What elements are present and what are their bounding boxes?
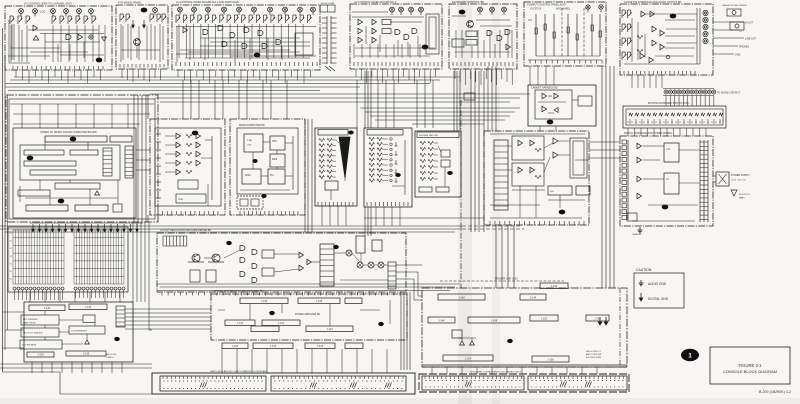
svg-text:LH CONTROLLERS TO LH PANEL ASS: LH CONTROLLERS TO LH PANEL ASSY: [24, 2, 72, 6]
long vertical bus right of A5: [470, 71, 472, 232]
panel board A3 (wide control panel) outline: [172, 5, 320, 70]
circled note 24 (B17): [507, 339, 513, 343]
wires board A17: [249, 304, 251, 320]
slide pot R4 (panel A6): [567, 14, 569, 56]
vertical buffer strip (computer): [103, 148, 112, 176]
aux box (board A8): [578, 96, 592, 106]
inner amplifier box (board A8): [535, 90, 572, 119]
connector bar J-122: [253, 343, 293, 349]
pin drop comb under board A3: [177, 70, 179, 77]
bottom rail (B17): [422, 364, 627, 366]
svg-text:J-112: J-112: [278, 321, 285, 325]
circled note 19 (board A16): [226, 241, 232, 245]
svg-text:MOD WHEEL: MOD WHEEL: [556, 9, 571, 11]
sheet number oval 1: [681, 349, 699, 361]
svg-text:XTAL: XTAL: [247, 139, 253, 142]
op-amp row 2 (board A10): [176, 142, 181, 147]
NAND gate U3 (board A1): [66, 35, 71, 40]
right horizontal bus y218: [364, 217, 484, 219]
output jack circle J20 (board A7): [703, 10, 708, 15]
jack contacts right group (board A2): [149, 14, 151, 22]
bottom pin row (board A4): [353, 62, 355, 66]
routing verticals board A3: [178, 24, 180, 58]
wires board A10: [165, 135, 176, 137]
mixer amp U52 (board A15): [553, 138, 558, 144]
small parts (board A7): [637, 35, 643, 38]
R-2R ladder rows (board A12): [319, 138, 325, 141]
svg-text:J-130: J-130: [44, 306, 51, 310]
RAM box U41 (board A11): [270, 154, 285, 167]
top horizontal bus line 4: [5, 86, 360, 88]
clock box (board A11): [244, 134, 263, 152]
tempo pot boxes: [240, 199, 248, 206]
page fold shading: [458, 0, 472, 404]
harness bar J-148: [468, 317, 520, 323]
keyboard matrix strip left outer: [152, 373, 415, 394]
contact strip segment 1 pin comb: [424, 376, 426, 379]
wires board A8: [548, 95, 552, 97]
output stub PHONES: [713, 45, 738, 47]
contact strip segment 2: [528, 376, 627, 390]
slide pot R5 (panel A6): [576, 14, 578, 56]
noise board drops: [539, 126, 541, 131]
svg-text:ORDER OF MICRO SOUND COMPUTER: ORDER OF MICRO SOUND COMPUTER BOARD: [40, 131, 97, 134]
svg-text:88 NOTE KEYBOARD SWITCH ASSY: 88 NOTE KEYBOARD SWITCH ASSY: [648, 102, 689, 105]
circled note 7 (board A7): [670, 14, 677, 19]
bottom pin row (board A3): [175, 62, 177, 66]
connector bars row below board A17: [222, 343, 248, 349]
wires board A5: [455, 51, 510, 53]
svg-text:JOYSTICK: JOYSTICK: [530, 9, 542, 11]
op-amp row 5 (board A10): [176, 169, 181, 174]
A16 right output links: [396, 264, 422, 266]
digital ground symbol: [640, 293, 642, 298]
harness bar J-144: [520, 294, 546, 300]
bottom pin row (board A5): [452, 62, 454, 66]
power amp board A17 outline: [211, 294, 407, 340]
right dash-dot edge (B17): [619, 288, 621, 365]
svg-text:B-200 (1B290K) 3-2: B-200 (1B290K) 3-2: [759, 390, 791, 394]
vertical bus between CPU boards: [304, 119, 306, 232]
bar bottom 1 (board A18): [27, 352, 54, 357]
circled note 9 (board A9): [662, 205, 669, 210]
down arrows (board A2): [132, 20, 134, 25]
harness bar J-150: [530, 315, 558, 321]
op-amp row 3 (board A10): [176, 151, 181, 156]
svg-text:J-124: J-124: [317, 344, 324, 348]
regulator band bottom pin comb: [161, 293, 163, 296]
bar J-132 (board A18): [69, 304, 107, 310]
svg-text:J-142: J-142: [551, 284, 558, 288]
slide pot R7 (panel A6): [599, 14, 601, 56]
top horizontal bus line 1: [14, 76, 460, 78]
circled note 18 (board A15): [559, 210, 566, 215]
output stub LINE: [713, 37, 744, 39]
svg-text:AUDIO GND: AUDIO GND: [648, 282, 667, 286]
caution legend box: [634, 273, 684, 308]
transistor Q2 (board A5): [467, 21, 474, 28]
filter caps (board A16): [190, 270, 200, 282]
top horizontal bus line 3: [5, 83, 430, 85]
B17 drops to strip B: [431, 367, 433, 374]
nested corner routing board A1: [9, 20, 30, 63]
wires board A9: [643, 145, 664, 147]
svg-text:J-110: J-110: [237, 321, 244, 325]
address bus bar (computer): [45, 136, 107, 142]
routing verticals board A2: [122, 26, 124, 60]
aux box small (board A18): [83, 315, 95, 323]
output jack circle J24 (board A7): [703, 38, 708, 43]
balance modulator X2: [357, 262, 363, 268]
keyboard strip pin dots: [627, 121, 628, 122]
IO box U42 (board A11): [242, 169, 261, 184]
vertical bus lower mid to strips: [400, 292, 402, 370]
svg-text:PWR: PWR: [178, 199, 184, 201]
sheet left border wire 1: [2, 28, 4, 372]
speaker amp tri 2: [470, 341, 475, 345]
keyboard analog inner box: [155, 128, 221, 206]
vertical bus A13 to lower band: [364, 207, 366, 236]
svg-text:J-120: J-120: [232, 344, 239, 348]
power supply connector J40: [716, 172, 729, 186]
cassette deck connector symbol: [727, 9, 741, 16]
switch matrix grid left: [12, 230, 14, 284]
bottom pin row (board A2): [119, 64, 121, 68]
keyboard control board A5 outline: [449, 4, 517, 69]
slide pot R2 (panel A6): [544, 14, 546, 56]
buffer amp U5 (board A3): [183, 27, 188, 32]
svg-text:KEY RELEASE: KEY RELEASE: [22, 344, 37, 347]
matrix strip segment 1 pin comb: [162, 376, 164, 379]
wires board A7: [631, 18, 633, 62]
matrix strip slash group a: [200, 383, 202, 388]
svg-text:J-144: J-144: [530, 296, 537, 300]
buffer U31 (board A9): [637, 157, 642, 162]
logic gates cluster (board A16): [240, 246, 245, 251]
right bus strip (board A9): [699, 140, 701, 222]
computer to A10 links: [136, 149, 150, 151]
circled note 8 (board A8): [547, 120, 554, 125]
VCA box (board A16): [356, 236, 365, 253]
power wires to connector: [713, 175, 716, 177]
matrix strip segment 2 pin comb: [273, 376, 275, 379]
wires board A18: [44, 311, 46, 315]
diode CR2 (board A8): [554, 108, 558, 113]
hold caps column (board A13): [395, 142, 397, 146]
circled note 23 (board A18): [114, 337, 120, 341]
jack contacts row (board A3): [175, 15, 177, 23]
harness bar J-156: [532, 356, 569, 362]
line amps U24/U25 (board A7): [652, 40, 657, 45]
extra interior wires board A15: [490, 133, 585, 135]
long drop wires top row to mid blocks right group: [356, 80, 358, 128]
contact strip bottom dot row 1: [425, 386, 428, 389]
wires computer board: [44, 142, 46, 150]
circled note 16 (board A13): [395, 173, 401, 177]
svg-text:PITCH/MOD PANEL: PITCH/MOD PANEL: [118, 1, 142, 5]
svg-text:HI OUT: HI OUT: [745, 22, 754, 25]
header slash marks: [325, 66, 331, 71]
grid bottom lamp circles left: [13, 287, 16, 290]
matrix strip left segment 2: [271, 376, 406, 391]
harness bar J-140: [438, 294, 485, 300]
circled note 6 (board A5): [459, 10, 466, 15]
DAC board A12 outline: [315, 128, 357, 206]
heatsink hatch left (board A16): [162, 236, 164, 246]
gates U18-U20 (board A5): [487, 31, 492, 36]
amp U29 (board A8): [542, 106, 547, 111]
computer control panel A6 outline: [524, 2, 606, 66]
terminal bar T3 (board A17): [306, 326, 353, 332]
bottom pin row (board A7): [623, 71, 625, 75]
A15 to A9 horizontal links: [589, 141, 620, 143]
left border feeds into A18: [3, 311, 25, 313]
svg-text:MICROCOMPUTER BD: MICROCOMPUTER BD: [239, 124, 265, 127]
A6 pins drop to A15: [529, 66, 531, 85]
svg-text:+5 VOLT REGULATOR AND LAMP DRI: +5 VOLT REGULATOR AND LAMP DRIVER BD: [160, 229, 211, 232]
panel jacks row (board A3): [178, 7, 183, 12]
control bar (computer): [30, 170, 76, 175]
DAC register box: [325, 181, 338, 190]
diode CR1 (board A1): [102, 37, 107, 41]
svg-text:J-150: J-150: [541, 317, 548, 321]
board A13 label bar: [367, 130, 403, 136]
fan symbol: [731, 190, 737, 196]
harness bar J-152: [586, 315, 609, 321]
phones amp U26 (board A7): [640, 53, 645, 58]
top horizontal bus line 2: [10, 79, 440, 81]
circled note 20 (board A16): [333, 245, 339, 249]
CPU box U40 (board A11): [270, 136, 285, 150]
board A7 to keyboard connector drops: [631, 75, 633, 88]
computer enclosure second outline: [9, 99, 155, 219]
panel jack J7 (board A2): [153, 8, 158, 13]
svg-text:CABINET HARNESS BD: CABINET HARNESS BD: [531, 87, 558, 90]
amp pair row 2 (board A4): [358, 28, 363, 33]
wires board A3: [176, 26, 178, 62]
svg-text:RAM: RAM: [272, 158, 277, 161]
vertical bus under board A5: [453, 71, 455, 131]
svg-text:POWER SUPPLY: POWER SUPPLY: [731, 174, 750, 177]
svg-text:LAMP DRIVE AND KEY SWITCH MATR: LAMP DRIVE AND KEY SWITCH MATRIX TO KEYB…: [210, 370, 268, 373]
gate cluster U11-U14 (board A3): [222, 42, 227, 47]
key pressed logic box (board A18): [21, 315, 59, 325]
drop wires under board A13: [375, 207, 377, 226]
svg-text:S2: S2: [10, 248, 12, 250]
output board A7 (top right) outline: [620, 4, 713, 75]
routing verticals board A5: [455, 30, 457, 58]
svg-text:CPU: CPU: [272, 141, 277, 143]
wire stubs inside board A1: [10, 47, 60, 49]
inner nested rect (board A4): [426, 14, 439, 54]
connector bar J-124: [305, 343, 335, 349]
mid bus dashed continuation: [462, 225, 520, 227]
svg-text:EDGE CONN: EDGE CONN: [321, 3, 335, 5]
routing verticals board A4: [353, 44, 355, 58]
wires board A12: [336, 140, 339, 143]
svg-text:GND: GND: [735, 54, 741, 57]
noise gen box (board A15): [548, 186, 572, 195]
svg-text:S4: S4: [10, 263, 12, 265]
tempo sub-box dashed (board A11): [237, 196, 263, 209]
assembly boundary dash-dot vertical: [460, 100, 462, 288]
routing horizontals board A4: [352, 11, 388, 13]
computer board inner outline: [13, 128, 136, 218]
buffer U33 (board A9): [637, 193, 642, 198]
computer enclosure outer outline: [6, 95, 158, 222]
regulator board A16 outline: [157, 233, 406, 292]
svg-text:LINE OUT: LINE OUT: [745, 38, 757, 41]
jack contacts left group (board A2): [119, 14, 121, 22]
keyer box (board A18): [20, 340, 62, 349]
mid bar 1 (computer): [55, 183, 100, 189]
edge connector strip (board A18 right): [116, 306, 125, 327]
svg-text:1 AND 4: 1 AND 4: [106, 356, 114, 359]
circled note 4 (board A3): [254, 53, 261, 58]
left pin box column (board A9): [622, 140, 627, 144]
panel jack J9 (panel A6): [599, 5, 603, 9]
circled note 12 (computer): [58, 199, 65, 204]
circled note 10 (computer): [70, 137, 77, 142]
PIA box U43 (board A11): [268, 169, 285, 184]
wires board A15: [508, 145, 512, 147]
cassette amp U21 (board A7): [641, 11, 646, 16]
transistor Q1 (board A2): [134, 39, 141, 46]
interconnect header pin column: [326, 16, 328, 64]
svg-text:J-156: J-156: [547, 358, 554, 362]
panel board A1 (left jack panel) outline: [5, 6, 112, 70]
svg-text:LOUDSPEAKER: LOUDSPEAKER: [71, 330, 87, 333]
RAM bar 2 (computer): [70, 150, 98, 155]
gate cluster U6-U10 (board A3): [203, 30, 208, 35]
svg-text:PHONES: PHONES: [739, 46, 750, 49]
terminal bar T4 (board A17): [251, 326, 279, 332]
matrix strip left segment 1: [160, 376, 266, 391]
circled note 5 (board A4): [422, 45, 429, 50]
bar bottom 2 (board A18): [66, 351, 106, 356]
output stub LO LEVEL: [713, 29, 738, 31]
matrix strip bottom dot row 1: [163, 387, 166, 390]
A18 bottom drops to strip: [31, 362, 33, 373]
right side vertical bus from panel A6: [601, 66, 603, 288]
svg-text:VELOCITY SENSOR: VELOCITY SENSOR: [23, 333, 43, 335]
svg-text:S1: S1: [10, 241, 12, 243]
svg-text:CONSOLE BLOCK DIAGRAM: CONSOLE BLOCK DIAGRAM: [723, 369, 777, 374]
ROM bar (computer): [110, 136, 132, 142]
contact strip segment 2 pin comb: [530, 376, 532, 379]
A16 to B17 vertical links: [414, 279, 422, 300]
wires board A4: [355, 47, 435, 49]
grids to strip drop lines: [29, 292, 31, 302]
mid bar 2 (computer): [18, 190, 50, 196]
A18 bottom horizontal feed 1: [0, 363, 152, 365]
cabinet harness area outline (B17): [422, 288, 627, 367]
svg-text:CAUTION:: CAUTION:: [636, 268, 652, 272]
from-keyboard bracket label: [440, 280, 564, 282]
balance modulator X3: [368, 262, 374, 268]
A18 bottom horizontal feed 2: [0, 367, 152, 369]
sample-hold board A13 outline: [364, 128, 412, 207]
pin drop comb under board A1: [15, 70, 17, 77]
board A17 drops to strip A: [221, 349, 223, 373]
data latch bar (computer): [24, 161, 76, 166]
analog voice board A15 outline: [484, 131, 589, 225]
slide pot R6 (panel A6): [591, 14, 593, 56]
svg-text:S/H: S/H: [550, 191, 554, 193]
bottom pin row (board A1): [12, 66, 14, 70]
bottom bar 1 (computer): [26, 205, 68, 211]
VCO amp U50: [518, 140, 523, 145]
mixer amp U53 (board A15): [553, 152, 558, 158]
keyboard strip drop wires to A9: [627, 128, 629, 136]
keyboard connector to switch strip drops: [665, 96, 667, 107]
summing node circle (board A1): [89, 35, 93, 39]
long drop wires top row to mid blocks left group: [182, 80, 184, 119]
svg-text:S6: S6: [10, 279, 12, 281]
op-amp U2 pointing up (board A1): [33, 36, 38, 41]
bottom pin row (board A10): [157, 211, 159, 215]
grid lamp drop wires left: [14, 290, 16, 300]
lamp driver arrow row (under computer): [32, 224, 34, 229]
circled note 14 (board A11): [252, 159, 257, 163]
amp U28 (board A8): [554, 93, 559, 98]
component boxes (board A5): [466, 31, 477, 37]
noise source board A8 outline: [528, 85, 596, 126]
svg-text:LH CONTROL PANEL BOARD NO.2: LH CONTROL PANEL BOARD NO.2: [354, 0, 397, 4]
connector bar J-126: [345, 343, 363, 349]
bottom pin row (board A11): [239, 211, 241, 215]
slide pot R3 (panel A6): [553, 14, 555, 56]
svg-text:PIA: PIA: [270, 174, 274, 177]
svg-text:POWER AMPLIFIER BD: POWER AMPLIFIER BD: [295, 313, 320, 316]
VCO sub-box 2 (board A15): [512, 163, 544, 186]
circled note 15 (board A11): [261, 194, 266, 198]
matrix strip bottom dot row 2: [274, 387, 277, 390]
phones jack board A14 outline: [415, 131, 461, 197]
svg-text:KEY PRESSED: KEY PRESSED: [23, 319, 38, 321]
DAC output wedge (dark filled triangle): [339, 137, 350, 178]
ladder rows (board A14): [420, 141, 426, 144]
routing horizontals board A5: [452, 15, 466, 17]
pass transistor Q11 (board A16): [212, 254, 220, 262]
reference box (board A15): [576, 186, 590, 195]
contact strip slash group c: [465, 382, 467, 387]
gnd arrows (B17): [599, 317, 601, 322]
balance modulator X1: [346, 250, 352, 256]
svg-text:COMPUT CONTROL PANEL ASSY: COMPUT CONTROL PANEL ASSY: [527, 4, 567, 7]
output jack circle J23 (board A7): [703, 31, 708, 36]
title box: [710, 347, 790, 384]
wires board A2: [120, 24, 122, 62]
trim box (board A16): [372, 240, 382, 251]
aux small box (computer): [113, 204, 122, 212]
bias box (board A5): [452, 39, 464, 47]
op-amp U1 (board A1): [33, 25, 38, 30]
svg-text:A-LG END VIEW: A-LG END VIEW: [586, 356, 601, 359]
mid horizontal bus line 7: [155, 97, 520, 99]
ground symbol (board A9): [639, 227, 641, 230]
bus to analog board horizontals: [360, 107, 520, 109]
harness bar J-146: [428, 317, 455, 323]
section divider lines (panel A6): [561, 8, 563, 58]
line amps U22/U23 (board A7): [652, 26, 657, 31]
slide pot R1 (panel A6): [535, 14, 537, 56]
regulator band feed bus: [157, 283, 460, 285]
output jack circle J22 (board A7): [703, 24, 708, 29]
key contact zigzags: [629, 113, 633, 116]
circled note 13 (board A10): [192, 131, 199, 136]
buffer U30 (board A9): [637, 143, 642, 148]
